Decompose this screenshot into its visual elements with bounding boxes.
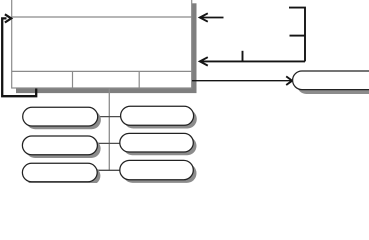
pill R1 bbox=[121, 106, 194, 125]
pill R1 shadow bbox=[124, 110, 197, 129]
stub connector row 3 bbox=[97, 169, 122, 171]
pill R2 bbox=[120, 133, 194, 152]
table cell divider 1 bbox=[72, 71, 74, 88]
stub connector row 1 bbox=[97, 116, 122, 118]
pill R3 bbox=[120, 160, 194, 179]
table cell divider 2 bbox=[138, 71, 140, 88]
table header line bbox=[12, 16, 192, 18]
vertical connector line bbox=[108, 89, 110, 171]
pill L3 bbox=[22, 163, 97, 182]
table box bbox=[12, 0, 192, 88]
pill L2 shadow bbox=[26, 139, 101, 158]
stub connector row 2 bbox=[97, 142, 122, 144]
arrow to big pill arrowhead bbox=[286, 76, 292, 85]
arrow into right edge (top) wire bbox=[201, 17, 224, 19]
big pill bbox=[293, 71, 369, 90]
table bottom band line bbox=[12, 70, 192, 72]
pill R3 shadow bbox=[123, 164, 197, 183]
bracket middle tick bbox=[290, 35, 306, 37]
feedback connector wire bbox=[2, 18, 36, 96]
pill L2 bbox=[22, 136, 97, 155]
pill L3 shadow bbox=[26, 167, 101, 186]
feedback connector arrowhead bbox=[5, 14, 11, 22]
arrow into right edge (top) arrowhead bbox=[200, 13, 208, 21]
big pill shadow bbox=[297, 75, 369, 94]
arrow from bracket tick bbox=[242, 51, 244, 62]
bracket bbox=[289, 8, 305, 62]
pill R2 shadow bbox=[123, 137, 197, 156]
table shadow bbox=[16, 3, 197, 93]
arrow to big pill wire bbox=[192, 80, 291, 82]
arrow from bracket arrowhead bbox=[200, 57, 208, 65]
arrow from bracket (middle) wire bbox=[201, 60, 305, 62]
pill L1 bbox=[23, 107, 98, 126]
pill L1 shadow bbox=[26, 111, 101, 130]
